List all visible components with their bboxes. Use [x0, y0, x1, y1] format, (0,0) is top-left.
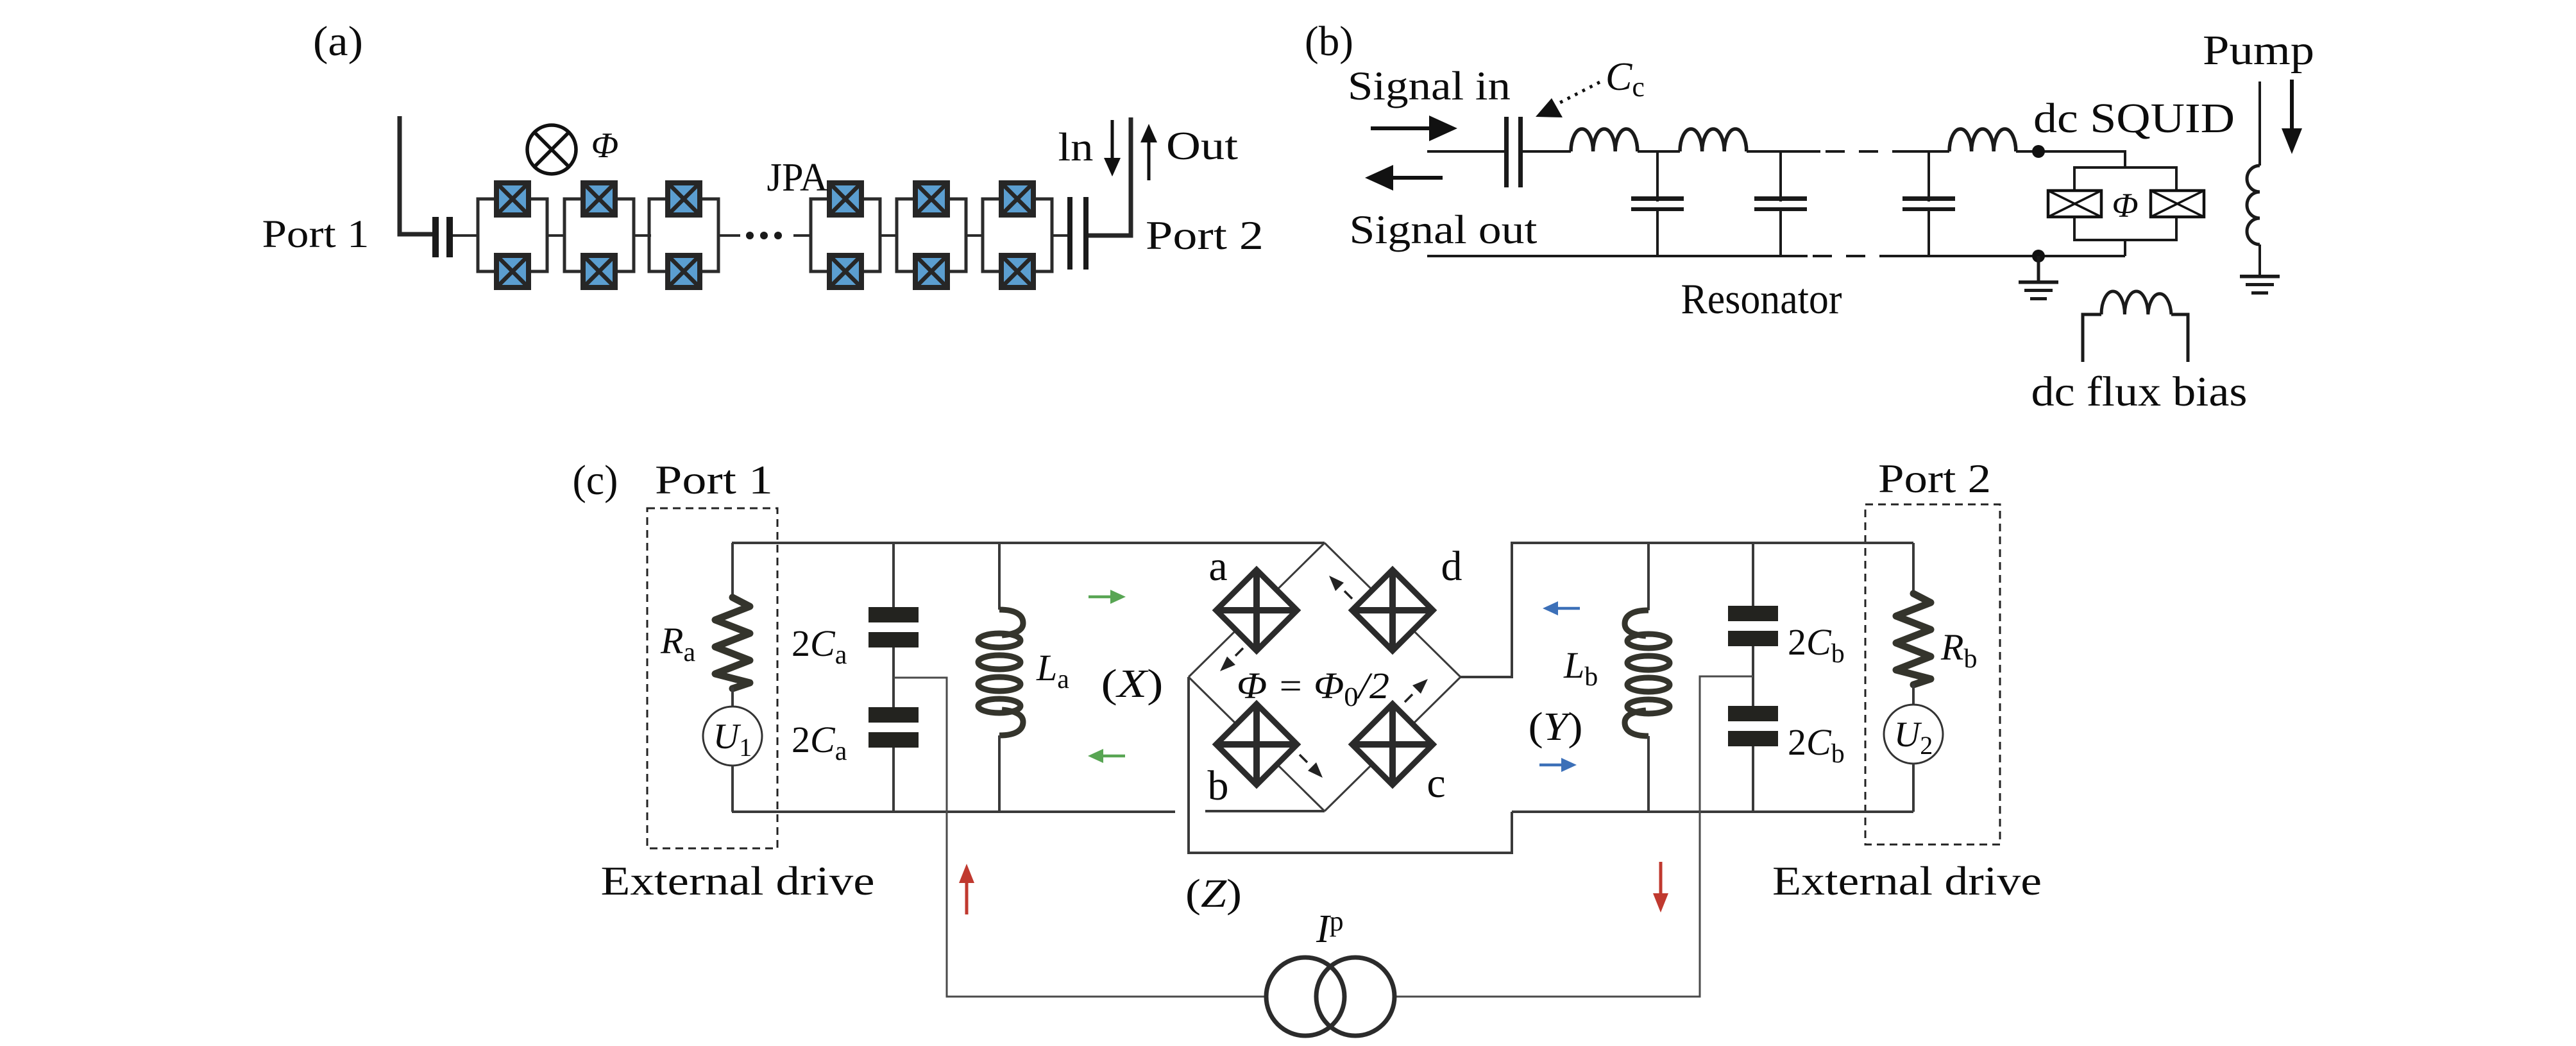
svg-text:2Cb: 2Cb — [1788, 621, 1845, 669]
svg-text:(c): (c) — [573, 457, 618, 504]
red arrow down — [1659, 862, 1663, 896]
wire port1 stub — [400, 116, 434, 234]
ring upper-right side — [1325, 543, 1461, 677]
svg-text:dc SQUID: dc SQUID — [2033, 95, 2235, 142]
capacitor 2Ca upper lead — [892, 543, 895, 607]
svg-text:La: La — [1036, 647, 1069, 694]
inductor Lb — [1625, 610, 1670, 736]
svg-text:Φ = Φ0/2: Φ = Φ0/2 — [1237, 665, 1389, 712]
node dot bottom — [2032, 250, 2045, 262]
wire SQUID6 to cap — [1052, 234, 1067, 237]
top wire dashed section — [1826, 150, 1901, 153]
svg-text:Cc: Cc — [1606, 55, 1645, 103]
capacitor C right plate1 — [1067, 197, 1072, 270]
JJ b — [1216, 704, 1297, 785]
svg-text:Signal in: Signal in — [1348, 64, 1511, 108]
red arrow up — [965, 880, 969, 914]
svg-text:Ra: Ra — [660, 620, 695, 667]
source U1 — [731, 687, 734, 707]
svg-text:(b): (b) — [1305, 18, 1353, 65]
capacitor C left plate2 — [446, 217, 453, 257]
wire — [634, 234, 651, 237]
top wire seg — [1747, 150, 1820, 153]
signal-in arrow — [1371, 126, 1436, 130]
shunt capacitor 3 — [1902, 151, 1955, 256]
current source circle 1 — [1266, 957, 1344, 1036]
svg-text:ln: ln — [1058, 126, 1094, 169]
svg-text:Out: Out — [1166, 124, 1238, 168]
capacitor 2Ca upper — [869, 607, 919, 647]
svg-text:Port 1: Port 1 — [655, 458, 773, 502]
JJ right of dc SQUID — [2151, 191, 2204, 217]
svg-text:Rb: Rb — [1940, 626, 1977, 674]
pump coil — [2247, 166, 2260, 244]
svg-text:U1: U1 — [713, 717, 752, 762]
inductor Lb lead — [1647, 543, 1650, 610]
wire — [547, 234, 564, 237]
dc SQUID loop — [2074, 167, 2176, 240]
top wire seg — [1901, 150, 1949, 153]
svg-text:Ip: Ip — [1316, 905, 1344, 951]
svg-text:b: b — [1208, 762, 1229, 809]
svg-text:(X): (X) — [1101, 662, 1164, 706]
bottom rail right — [1512, 810, 1913, 813]
signal-out arrow — [1387, 176, 1443, 180]
blue arrow left — [1554, 607, 1580, 610]
pump tap wire left — [894, 678, 1266, 997]
shunt capacitor 2 — [1754, 151, 1807, 256]
top wire seg — [1638, 150, 1680, 153]
svg-text:Resonator: Resonator — [1681, 275, 1842, 323]
svg-text:2Cb: 2Cb — [1788, 721, 1845, 769]
ring lower-left side — [1189, 677, 1325, 811]
svg-text:External drive: External drive — [1772, 858, 2042, 904]
current source circle 2 — [1316, 957, 1394, 1036]
Out arrow — [1148, 140, 1151, 180]
resistor Rb lead — [1912, 543, 1915, 595]
ring arrow near d — [1344, 591, 1352, 599]
wire cap to SQUID1 — [453, 234, 479, 237]
svg-text:Φ: Φ — [591, 126, 619, 166]
right jog wire — [1461, 542, 1512, 677]
svg-text:dc flux bias: dc flux bias — [2031, 368, 2248, 415]
resistor Ra lead — [731, 543, 734, 599]
dashed box port2 — [1865, 504, 2000, 845]
svg-text:Port 1: Port 1 — [262, 213, 369, 256]
blue arrow right — [1539, 764, 1565, 767]
svg-text:External drive: External drive — [601, 858, 875, 904]
capacitor 2Cb upper lead — [1752, 543, 1754, 606]
wire — [880, 234, 897, 237]
top wire to squid — [2016, 151, 2125, 167]
wire before dots — [718, 234, 740, 237]
svg-text:c: c — [1427, 760, 1445, 807]
coupling capacitor Cc plate2 — [1518, 117, 1523, 187]
pump arrow — [2290, 80, 2294, 132]
top wire seg — [1523, 150, 1571, 153]
JJ d — [1352, 570, 1433, 651]
SQUID 4 (two JJs) — [811, 183, 880, 287]
pump tap wire right — [1394, 676, 1753, 997]
SQUID 5 (two JJs) — [897, 183, 966, 287]
green arrow right — [1089, 596, 1114, 599]
bottom rail — [1427, 255, 1808, 257]
coupling capacitor Cc plate1 — [1504, 117, 1509, 187]
inductor L2 — [1680, 129, 1747, 151]
inductor L1 — [1571, 129, 1638, 151]
SQUID 6 (two JJs) — [983, 183, 1052, 287]
dc SQUID bottom stub — [2124, 240, 2126, 256]
svg-text:Port 2: Port 2 — [1146, 213, 1264, 258]
JJ c — [1352, 704, 1433, 785]
svg-text:Signal out: Signal out — [1350, 207, 1538, 252]
svg-text:a: a — [1208, 543, 1227, 590]
top rail right — [1512, 542, 1913, 544]
dotted pointer arrow to Cc — [1555, 82, 1600, 105]
svg-text:Port 2: Port 2 — [1878, 456, 1991, 501]
dc flux bias coil — [2083, 291, 2188, 362]
top wire left — [1427, 150, 1504, 153]
capacitor 2Ca lower — [892, 647, 895, 707]
In arrow — [1111, 120, 1114, 160]
svg-text:2Ca: 2Ca — [792, 719, 847, 766]
SQUID 2 (two JJs) — [564, 183, 634, 287]
flux bias symbol circle-X — [527, 125, 576, 174]
wire after dots — [793, 234, 811, 237]
ring arrow near a — [1235, 648, 1243, 656]
bottom rail dashed section — [1813, 255, 1890, 257]
svg-text:Φ: Φ — [2112, 186, 2138, 225]
green arrow left — [1099, 755, 1125, 758]
svg-text:(Z): (Z) — [1185, 872, 1242, 916]
svg-text:Lb: Lb — [1563, 644, 1598, 692]
JJ a — [1216, 570, 1297, 651]
ground below bottom node — [2037, 256, 2040, 280]
capacitor C right plate2 — [1083, 197, 1089, 270]
bottom rail seg — [1890, 255, 2125, 257]
resistor Rb — [1896, 594, 1931, 685]
ring lower-right side — [1325, 677, 1461, 811]
capacitor 2Cb upper — [1728, 606, 1778, 646]
svg-text:(a): (a) — [313, 18, 363, 65]
capacitor C left plate1 — [432, 217, 439, 257]
wire — [966, 234, 983, 237]
bottom wire into ring — [1205, 810, 1325, 812]
svg-text:U2: U2 — [1894, 715, 1933, 760]
svg-text:2Ca: 2Ca — [792, 622, 847, 670]
node dot top — [2032, 145, 2045, 158]
Z pump loop wire — [1189, 677, 1512, 853]
inductor L3 — [1949, 129, 2016, 151]
wire to port2 riser — [1089, 117, 1131, 236]
dashed box port1 — [647, 508, 777, 848]
svg-text:(Y): (Y) — [1529, 705, 1583, 749]
svg-text:Pump: Pump — [2203, 27, 2314, 74]
svg-text:JPA: JPA — [767, 156, 828, 200]
pump ground — [2258, 244, 2261, 275]
ring upper-left side — [1189, 543, 1325, 677]
ring arrow near b — [1300, 755, 1307, 762]
ring arrow near c — [1405, 694, 1412, 702]
pump feed wire — [2258, 81, 2261, 166]
resistor Ra — [715, 597, 750, 689]
ellipsis dots — [746, 232, 754, 239]
svg-text:d: d — [1441, 543, 1462, 590]
shunt capacitor 1 — [1631, 151, 1684, 256]
source U2 — [1912, 683, 1915, 705]
bottom rail left — [732, 810, 1175, 813]
inductor La lead — [998, 543, 1001, 610]
top rail left — [732, 542, 1325, 544]
SQUID 1 (two JJs) — [478, 183, 547, 287]
SQUID 3 (two JJs) — [649, 183, 718, 287]
inductor La — [978, 610, 1023, 735]
JJ left of dc SQUID — [2048, 191, 2101, 217]
capacitor 2Cb lower — [1752, 646, 1754, 706]
